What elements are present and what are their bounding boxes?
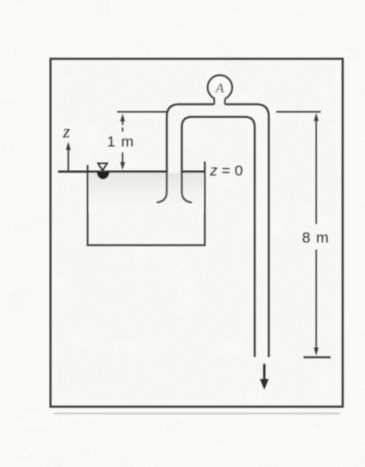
ghost scan line below frame [54,413,340,415]
free-surface symbol (filled half-disc below line) [97,172,110,179]
tank right wall [204,162,206,247]
gauge neck right line [224,99,226,105]
gauge neck left line [213,99,215,105]
tank left wall [87,165,89,246]
water surface line (right of siphon leg) [182,170,205,172]
water shading in tank [89,173,204,213]
1 m dimension lower arrow [122,153,124,164]
siphon pipe outer wall, right of gauge neck [225,104,269,357]
free-surface symbol (open triangle) [98,163,107,170]
1 m dimension upper arrow [120,114,125,122]
1 m dimension horizontal line [117,111,167,113]
siphon pipe outer wall, left of gauge neck (with inlet flare) [157,104,214,202]
z axis arrow [67,147,69,171]
8 m dimension top horizontal line [276,111,321,113]
outer border frame of figure [51,59,343,407]
tank bottom [87,244,205,246]
8 m dimension lower arrow [315,250,317,349]
8 m dimension bottom tick [304,356,331,358]
8 m dimension upper arrow [314,113,319,121]
point A gauge circle [208,75,232,99]
siphon pipe inner wall (with inlet flare) [182,117,255,357]
outflow arrow at pipe exit [263,364,265,382]
water surface line (left of siphon leg) [58,170,167,172]
